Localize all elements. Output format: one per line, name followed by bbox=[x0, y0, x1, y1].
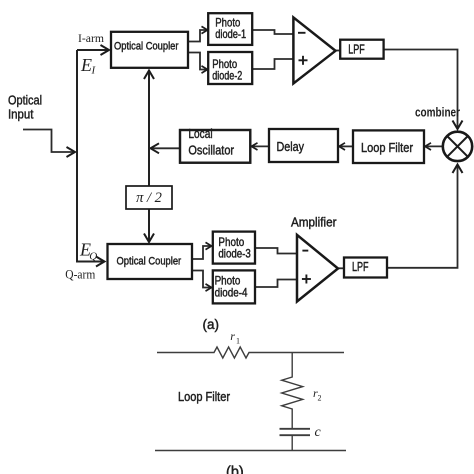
svg-text:diode-1: diode-1 bbox=[215, 27, 246, 41]
svg-text:r: r bbox=[230, 329, 235, 343]
svg-text:diode-4: diode-4 bbox=[215, 286, 248, 300]
svg-text:diode-2: diode-2 bbox=[212, 69, 242, 83]
svg-text:Optical: Optical bbox=[8, 93, 42, 108]
svg-text:Local: Local bbox=[188, 126, 212, 141]
svg-text:LPF: LPF bbox=[348, 43, 365, 57]
svg-text:Oscillator: Oscillator bbox=[188, 142, 234, 157]
svg-text:Optical Coupler: Optical Coupler bbox=[114, 41, 179, 53]
svg-text:Amplifier: Amplifier bbox=[291, 215, 337, 230]
svg-text:diode-3: diode-3 bbox=[218, 247, 251, 261]
svg-text:combiner: combiner bbox=[415, 105, 460, 120]
svg-text:E: E bbox=[80, 55, 92, 75]
svg-text:1: 1 bbox=[236, 337, 240, 346]
svg-text:Q: Q bbox=[89, 251, 97, 263]
svg-text:π / 2: π / 2 bbox=[136, 190, 162, 206]
svg-text:c: c bbox=[315, 425, 322, 440]
svg-text:Input: Input bbox=[8, 107, 34, 122]
svg-text:(a): (a) bbox=[203, 317, 220, 332]
svg-text:(b): (b) bbox=[226, 464, 244, 474]
svg-text:LPF: LPF bbox=[352, 260, 369, 274]
svg-text:2: 2 bbox=[318, 394, 322, 403]
svg-text:Loop Filter: Loop Filter bbox=[178, 390, 230, 404]
svg-text:Loop Filter: Loop Filter bbox=[361, 140, 414, 155]
svg-text:Q-arm: Q-arm bbox=[65, 268, 95, 282]
svg-text:I-arm: I-arm bbox=[78, 31, 105, 45]
svg-text:Delay: Delay bbox=[277, 139, 305, 154]
svg-text:Optical Coupler: Optical Coupler bbox=[117, 256, 182, 268]
